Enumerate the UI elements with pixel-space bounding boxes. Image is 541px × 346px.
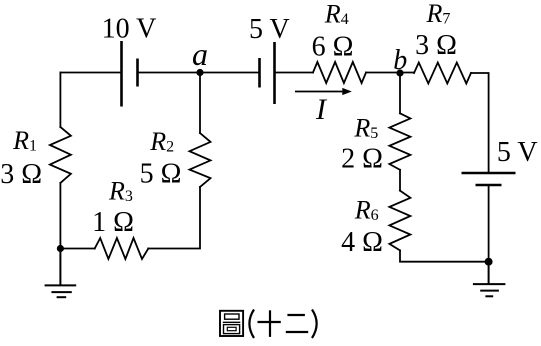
wire left rail lower — [59, 183, 61, 249]
wire node b down to resistor R5 — [399, 73, 401, 113]
caption glyph ER (two) — [286, 315, 308, 332]
svg-text:3 Ω: 3 Ω — [415, 30, 457, 61]
wire top-left horizontal — [60, 72, 121, 74]
svg-text:R3: R3 — [108, 177, 133, 206]
caption glyph SHI (ten) — [258, 310, 281, 337]
wire battery V2 to resistor R4 — [275, 72, 314, 74]
wire R6 bottom to bottom-right node — [400, 250, 489, 261]
battery V2 5V short plate — [258, 58, 261, 88]
wire R7 to top-right corner down to battery V3 — [471, 73, 489, 172]
resistor R7 zigzag — [414, 63, 471, 84]
node a junction dot — [196, 69, 203, 76]
wire battery V1 to node a to battery V2 — [138, 72, 260, 74]
resistor R4 zigzag — [313, 62, 366, 83]
caption open paren — [249, 310, 254, 339]
resistor R1 zigzag — [50, 127, 71, 183]
resistor R2 zigzag — [190, 133, 211, 187]
svg-text:a: a — [192, 36, 208, 72]
svg-text:R2: R2 — [149, 127, 174, 156]
svg-text:R1: R1 — [12, 126, 37, 155]
battery V3 5V short plate — [476, 184, 502, 187]
battery V1 10V short plate — [136, 59, 139, 87]
ground left — [45, 249, 77, 298]
svg-text:5 V: 5 V — [249, 14, 290, 45]
svg-text:2 Ω: 2 Ω — [341, 143, 383, 174]
wire node a down to resistor R2 — [199, 73, 201, 134]
resistor R3 zigzag — [95, 238, 149, 259]
caption glyph TU (figure) — [220, 311, 243, 336]
caption close paren — [312, 310, 317, 339]
svg-text:5 Ω: 5 Ω — [140, 158, 182, 189]
svg-text:10 V: 10 V — [102, 14, 157, 45]
svg-text:R4: R4 — [324, 0, 349, 29]
svg-text:5 V: 5 V — [497, 137, 538, 168]
wire left rail upper — [59, 73, 61, 128]
resistor R6 zigzag — [389, 191, 410, 251]
svg-text:R6: R6 — [354, 196, 379, 225]
bottom-right junction dot — [485, 258, 493, 266]
bottom-left junction dot — [57, 245, 64, 252]
svg-text:3 Ω: 3 Ω — [0, 159, 42, 190]
svg-text:b: b — [393, 45, 407, 76]
node b junction dot — [396, 69, 403, 76]
current arrow I — [295, 88, 352, 95]
wire bottom-left node to resistor R3 — [60, 248, 94, 250]
wire battery V3 to bottom-right node — [488, 185, 490, 262]
svg-text:R5: R5 — [353, 114, 378, 143]
ground right — [473, 262, 506, 297]
wire R5 to R6 — [399, 170, 401, 191]
svg-text:1 Ω: 1 Ω — [92, 207, 134, 238]
svg-text:I: I — [315, 93, 328, 126]
svg-text:4 Ω: 4 Ω — [341, 227, 383, 258]
battery V2 5V long plate — [273, 42, 276, 104]
battery V3 5V long plate — [462, 172, 516, 175]
wire R2 bottom to R3 right — [148, 187, 200, 249]
wire R4 to node b to resistor R7 — [366, 72, 414, 74]
battery V1 10V long plate — [120, 41, 123, 107]
svg-text:6 Ω: 6 Ω — [312, 32, 354, 63]
svg-text:R7: R7 — [426, 0, 451, 28]
resistor R5 zigzag — [389, 113, 410, 170]
